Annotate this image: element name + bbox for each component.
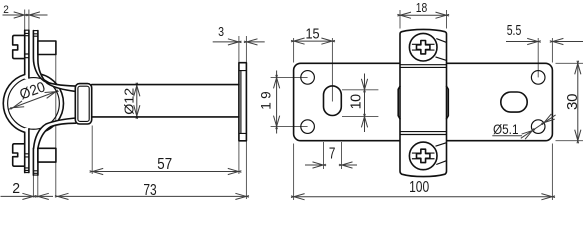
svg-text:57: 57 — [157, 156, 172, 173]
extension line: bottom strap legs (for dim 2 bottom) — [33, 175, 37, 197]
extension lines: band corners (dim 18) — [400, 10, 447, 29]
svg-text:Ø5.1: Ø5.1 — [493, 122, 519, 137]
extension line: sleeve right edge (for dim 57) — [91, 126, 93, 175]
hex bolt head (bottom) — [13, 144, 25, 166]
screw bottom — [409, 142, 437, 170]
dimension 100 — [294, 196, 553, 198]
slot right (oval) — [501, 92, 527, 112]
rod (shaft to flange) — [92, 85, 239, 117]
hole top-right — [531, 71, 545, 85]
svg-text:15: 15 — [306, 25, 320, 42]
screw top — [409, 33, 437, 61]
dimension 15 — [294, 40, 333, 42]
dimension 19 (hole spacing) — [271, 77, 308, 126]
lower neck strap — [34, 118, 76, 148]
extension lines: plate corners (dims 15/5.5/100/30) — [294, 38, 583, 200]
clamp strap outer arc left — [3, 75, 24, 133]
dimension 18 — [400, 14, 447, 16]
nut (top) — [38, 41, 56, 55]
dimension 30 — [577, 63, 579, 140]
dimension 5.5 — [506, 41, 583, 43]
svg-text:30: 30 — [564, 94, 581, 111]
dimension 57 — [92, 171, 239, 173]
dimension Ø12 (rod) — [136, 85, 138, 116]
svg-text:73: 73 — [143, 182, 156, 199]
band wrap lines (top) — [400, 65, 447, 68]
extension line: nut right edge (for dim 73) — [55, 55, 57, 197]
svg-text:2: 2 — [3, 4, 9, 16]
dimension 2 (top) — [3, 14, 48, 16]
extension lines: slot (dim 7) — [324, 142, 342, 169]
clamp band (front) — [400, 29, 447, 176]
extension line: top strap legs (for dim 2 top) — [25, 10, 29, 31]
band wrap lines (bottom) — [400, 132, 447, 135]
hole bottom-left — [301, 120, 315, 134]
dimension 10 — [364, 74, 366, 133]
screw top: strap seam lines — [436, 39, 447, 61]
slot left (7x10) — [324, 86, 342, 116]
dimension 3 (flange thickness) — [213, 41, 265, 43]
rod holder loop — [75, 84, 91, 124]
svg-text:Ø12: Ø12 — [122, 88, 137, 115]
rod holder loop inner — [78, 86, 89, 121]
flange (plate edge-on) — [239, 63, 247, 141]
lower-right leg + neck white band — [34, 118, 76, 148]
svg-text:2: 2 — [12, 181, 20, 197]
pipe circle — [8, 78, 60, 130]
bottom strap legs — [25, 129, 38, 175]
svg-text:100: 100 — [409, 179, 429, 196]
upper-right leg + neck white band — [33, 31, 75, 92]
Ø5.1 label + leader — [492, 115, 555, 138]
svg-text:3: 3 — [218, 25, 224, 39]
band side bulges (rod boss) — [398, 86, 448, 119]
extension lines: slot (dim 10) — [342, 90, 378, 117]
top strap legs — [25, 30, 29, 78]
plate (100 x 30) — [294, 63, 553, 140]
dimension Ø20 (pipe) — [8, 91, 57, 109]
hole top-left — [301, 71, 315, 85]
screw bottom: strap seam lines — [436, 143, 447, 165]
extension lines: flange (for dims 3/57/73) — [239, 36, 247, 199]
dimension 73 — [58, 195, 247, 197]
dimension 7 — [305, 164, 357, 166]
hex bolt head (top) — [13, 35, 25, 58]
left leg white masks — [25, 30, 29, 79]
bottom leg end ticks — [24, 154, 38, 175]
svg-text:7: 7 — [329, 146, 336, 163]
svg-text:10: 10 — [349, 94, 365, 110]
flange hole section lines — [239, 71, 247, 134]
svg-text:18: 18 — [416, 0, 428, 15]
clamp strap outer arc right — [40, 74, 63, 133]
svg-text:5.5: 5.5 — [507, 22, 522, 39]
dimension 2 (bottom) — [1, 195, 54, 197]
hole bottom-right Ø5.1 — [531, 120, 545, 134]
upper neck strap — [33, 31, 75, 87]
top leg end ticks — [24, 30, 38, 58]
nut (bottom) — [38, 148, 56, 162]
